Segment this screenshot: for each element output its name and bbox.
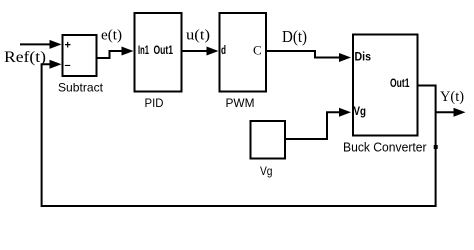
wire PID to PWM with u(t) [183,47,219,56]
svg-text:In1: In1 [138,43,149,57]
svg-text:u(t): u(t) [186,28,210,44]
svg-text:Dis: Dis [355,50,372,64]
svg-text:C: C [253,43,262,58]
svg-text:D(t): D(t) [282,27,307,46]
svg-text:PWM: PWM [226,96,255,110]
svg-text:PID: PID [145,96,164,110]
block Vg source [251,121,286,178]
svg-text:+: + [65,40,71,52]
svg-text:Out1: Out1 [390,76,410,90]
wire feedback: from Buck output down, along bottom, up into Subtract - input [42,60,436,206]
block PID [135,13,182,110]
wire Vg source to Buck Vg port [286,108,351,139]
svg-text:Vg: Vg [354,104,367,118]
block Buck Converter [343,35,427,155]
block Subtract [58,35,104,95]
svg-text:–: – [65,60,71,72]
svg-text:Ref(t): Ref(t) [4,49,46,66]
svg-text:e(t): e(t) [101,28,122,44]
block PWM [220,13,267,110]
wire Ref(t) source line into Subtract + input [20,40,62,49]
svg-text:Y(t): Y(t) [440,89,464,105]
wire output branch to Y(t) [436,108,466,117]
junction dot on feedback line [434,145,438,149]
svg-text:Subtract: Subtract [58,81,104,95]
svg-text:Buck Converter: Buck Converter [343,140,427,155]
svg-text:Vg: Vg [260,164,273,178]
wire Subtract to PID with e(t) [98,47,134,59]
wire PWM to Buck Dis with D(t) [267,51,351,62]
svg-text:d: d [221,43,226,57]
svg-text:Out1: Out1 [154,43,174,57]
